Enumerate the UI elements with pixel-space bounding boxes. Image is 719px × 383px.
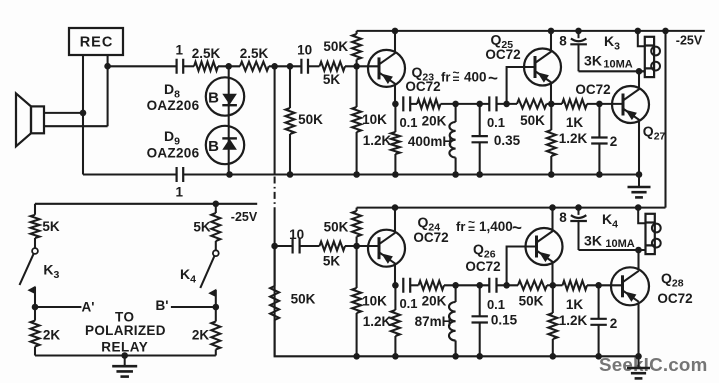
svg-text:OC72: OC72 (657, 291, 692, 306)
node 1.2K Q24 bottom (392, 353, 399, 360)
node B-prime junction (213, 304, 220, 311)
label fr approx 400 (441, 66, 498, 88)
wire 20K to nodes (441, 103, 490, 105)
capacitor 10 bottom coupling (293, 239, 300, 254)
svg-text:0.1: 0.1 (399, 296, 417, 311)
svg-text:B: B (208, 138, 219, 155)
node cap2 bottom rail (595, 353, 602, 360)
svg-text:2.5K: 2.5K (192, 46, 221, 61)
node 0.35 bottom (476, 171, 483, 178)
resistor 5K series top (320, 62, 346, 71)
contact K3 blade (20, 254, 34, 285)
resistor 1.2K Q24 emitter (391, 310, 400, 336)
wire -25V rail bottom channel (357, 207, 666, 209)
resistor 1.2K Q26 emitter (548, 313, 557, 339)
relay K3 coil (638, 31, 660, 77)
wire Q23 collector (394, 31, 396, 53)
wire input line to coupling cap (108, 65, 177, 67)
svg-text:RELAY: RELAY (101, 340, 148, 355)
inductor 400mH (449, 122, 455, 158)
node 0.15 top (476, 282, 483, 289)
capacitor 10 second coupling (301, 59, 308, 74)
wire Q25 emitter (550, 84, 552, 104)
wire Q24 collector (394, 208, 396, 233)
svg-text:400mH: 400mH (408, 134, 452, 149)
wire contact section rail (35, 203, 257, 205)
svg-text:1K: 1K (566, 115, 584, 130)
contact K4 wiper arrow (208, 289, 216, 297)
wire Q23 emitter (394, 85, 396, 104)
wire Q28 emitter to ground rail (637, 304, 639, 357)
svg-text:OC72: OC72 (485, 47, 520, 62)
svg-text:10MA: 10MA (605, 238, 634, 250)
wire Q26 collector (551, 208, 553, 231)
wire Q27 collector (638, 71, 640, 88)
svg-text:1.2K: 1.2K (559, 131, 588, 146)
svg-text:50K: 50K (519, 294, 544, 309)
node cap2 tap bottom (595, 282, 602, 289)
node relay K3 top on rail (635, 28, 642, 35)
node Q26 emitter node (550, 282, 557, 289)
svg-text:-25V: -25V (231, 210, 258, 224)
svg-text:OC72: OC72 (413, 230, 448, 245)
wire 5K K4 leads (215, 204, 217, 251)
capacitor 2 top channel (591, 138, 607, 144)
transistor Q25 OC72 (524, 49, 561, 86)
wire B-prime (171, 306, 216, 308)
svg-text:0.1: 0.1 (487, 115, 505, 130)
svg-text:5K: 5K (193, 220, 211, 235)
resistor 10K Q24 base-to-ground (352, 288, 361, 313)
wire K3 wiper stem (34, 287, 36, 307)
capacitor 0.1 second bottom (489, 278, 496, 293)
svg-text:POLARIZED: POLARIZED (85, 323, 166, 338)
wire shunt plain vertical (274, 66, 276, 174)
wire 5K K3 leads (34, 204, 36, 248)
wire Q28 collector (637, 250, 639, 270)
node inductor top (452, 101, 459, 108)
svg-text:2: 2 (610, 134, 618, 149)
node 0.15 bottom (476, 353, 483, 360)
contact K4 fixed circle (213, 250, 219, 256)
resistor 10K Q23 base-to-ground (352, 107, 361, 132)
svg-text:0.1: 0.1 (399, 115, 417, 130)
wire 0.15 leads (479, 285, 481, 356)
resistor 50K Q23 base-to-rail (352, 34, 361, 60)
svg-text:400: 400 (464, 70, 487, 85)
resistor 1K bottom (563, 281, 588, 290)
wire Q26 emitter (551, 263, 553, 285)
svg-text:A': A' (82, 300, 95, 315)
node 10K bottom (353, 171, 360, 178)
node Q25 emitter node (548, 101, 555, 108)
wire cap8 to relay node (579, 70, 645, 72)
wire 5K to Q23 base (345, 65, 379, 67)
wire 1.2K Q26 leads (552, 285, 554, 356)
capacitor 0.35 shunt (472, 136, 488, 142)
wire link solid to bottom input (274, 210, 276, 246)
contact K4 blade (200, 256, 214, 288)
wire Q25 base route (507, 67, 535, 104)
wire top channel lower rail left (83, 173, 177, 175)
wire -25V rail top (357, 30, 705, 32)
svg-text:5K: 5K (42, 219, 60, 234)
svg-text:87mH: 87mH (415, 314, 452, 329)
svg-text:50K: 50K (324, 220, 349, 235)
node Q28 emitter on rail (635, 353, 642, 360)
resistor 20K bottom (419, 281, 445, 290)
wire 1K to Q27 base (587, 103, 623, 105)
wire 10K leads (356, 66, 358, 174)
svg-text:8: 8 (559, 210, 567, 225)
wire 1.2K Q25 leads (550, 104, 552, 175)
svg-text:20K: 20K (422, 114, 447, 129)
wire to input shunt node (269, 65, 302, 67)
node junction on REC right lead (104, 63, 111, 70)
svg-text:B: B (208, 90, 219, 107)
node shunt wire top (271, 63, 278, 70)
svg-text:B': B' (156, 298, 169, 313)
svg-text:-25V: -25V (676, 34, 703, 48)
svg-text:REC: REC (80, 35, 114, 51)
svg-text:20K: 20K (422, 294, 447, 309)
svg-text:OC72: OC72 (405, 79, 440, 94)
wire A-prime (35, 306, 81, 308)
svg-text:50K: 50K (323, 39, 348, 54)
resistor 2.5K second (240, 62, 269, 71)
wire cap to 5K bottom (300, 245, 320, 247)
wire cap8 to relay K4 node (579, 249, 646, 251)
capacitor 0.1 second top (489, 96, 496, 111)
node 10K bottom rail (353, 353, 360, 360)
capacitor 1 input coupling (177, 59, 184, 74)
wire contact section bottom rail (35, 354, 216, 356)
wire Q27 emitter to ground rail (638, 121, 640, 175)
svg-text:1K: 1K (566, 297, 584, 312)
transistor Q27 OC72 (612, 86, 649, 123)
resistor 1.2K Q25 emitter (547, 130, 556, 156)
inductor 87mH (449, 302, 456, 341)
node Q24 collector on rail (392, 204, 399, 211)
node inductor bottom (452, 171, 459, 178)
svg-text:8: 8 (559, 34, 567, 49)
wire 50K shunt bottom leads (274, 246, 276, 356)
capacitor 8 electrolytic bottom (570, 208, 587, 250)
wire cap to 20K bottom (410, 284, 418, 286)
svg-text:~: ~ (468, 215, 475, 229)
resistor 50K shunt bottom channel (270, 286, 279, 320)
contact K3 fixed circle (32, 248, 38, 254)
resistor 2.5K first (194, 62, 218, 71)
capacitor 8 electrolytic top (570, 31, 587, 71)
node 1.2K Q26 bottom (550, 353, 557, 360)
svg-text:3K: 3K (584, 53, 602, 69)
resistor 50K bottom filter (518, 281, 547, 290)
wire 50K shunt leads (289, 66, 291, 174)
wire right edge feed down to K4 rail (664, 31, 666, 208)
wire K4 wiper stem (215, 290, 217, 307)
svg-text:OC72: OC72 (465, 259, 500, 274)
resistor 50K shunt top channel (286, 108, 295, 134)
svg-text:3K: 3K (584, 233, 602, 249)
wire inductor leads (455, 104, 457, 175)
node 1.2K Q25 bottom (548, 171, 555, 178)
svg-text:1: 1 (176, 43, 184, 58)
node Q24 base node (353, 243, 360, 250)
relay K4 coil (638, 208, 660, 255)
resistor 20K top (417, 99, 441, 108)
wire cap2 bottom leads (598, 285, 600, 356)
node Q27 emitter on rail (636, 171, 643, 178)
svg-text:10K: 10K (362, 294, 387, 309)
wire speaker lower terminal (44, 125, 108, 127)
svg-text:1.2K: 1.2K (559, 313, 588, 328)
node 0.35 top (476, 101, 483, 108)
svg-text:2K: 2K (43, 328, 61, 343)
svg-text:50K: 50K (298, 112, 323, 127)
capacitor 2 bottom channel (590, 319, 606, 325)
wire 0.35 leads (479, 104, 481, 175)
resistor 1K top (562, 99, 587, 108)
diode D8 OAZ206 zener circle (206, 77, 244, 115)
wire cap to 5K (308, 65, 320, 67)
resistor 50K top filter (517, 99, 547, 108)
svg-text:fr: fr (456, 219, 465, 234)
svg-text:0.1: 0.1 (487, 297, 505, 312)
svg-text:10K: 10K (362, 112, 387, 127)
ground Q28 emitter (627, 356, 650, 378)
svg-text:fr: fr (441, 70, 450, 85)
node cap8 top on rail (575, 28, 582, 35)
svg-text:1,400: 1,400 (479, 219, 513, 234)
node Q25 collector on rail (548, 28, 555, 35)
node cap8 bottom on rail (575, 204, 582, 211)
wire between 2.5K resistors (218, 65, 240, 67)
speaker (16, 93, 44, 146)
wire top channel lower rail right (183, 173, 639, 175)
wire cap to 50K bottom (497, 284, 519, 286)
node Q28 collector relay node (635, 247, 642, 254)
svg-text:50K: 50K (520, 113, 545, 128)
wire 87mH leads (455, 285, 457, 356)
node cap2 tap top (596, 101, 603, 108)
resistor 1.2K Q23 emitter (391, 132, 400, 154)
svg-text:0.15: 0.15 (491, 313, 518, 328)
node contact ground junction (121, 352, 128, 359)
wire speaker upper terminal (44, 112, 83, 114)
wire 2K K3 leads (34, 307, 36, 356)
wire 50K to 1K bottom (547, 284, 563, 286)
svg-text:OAZ206: OAZ206 (147, 146, 200, 161)
svg-text:10MA: 10MA (603, 59, 632, 71)
transistor Q24 OC72 (368, 230, 405, 267)
svg-text:OC72: OC72 (575, 82, 610, 97)
node Q23 collector on rail (392, 28, 399, 35)
wire 5K to Q24 base (345, 245, 379, 247)
svg-text:1.2K: 1.2K (363, 133, 392, 148)
svg-text:1.2K: 1.2K (363, 314, 392, 329)
capacitor 1 lower coupling (177, 167, 184, 182)
node Q27 collector relay node (636, 68, 643, 75)
resistor 2K K4 branch (211, 322, 220, 350)
wire 50K to 1K (547, 103, 563, 105)
resistor 5K K3 branch (31, 215, 40, 238)
contact K3 wiper arrow (27, 286, 35, 294)
svg-text:50K: 50K (291, 292, 316, 307)
svg-text:1: 1 (176, 185, 184, 200)
node relay K4 top on rail (635, 204, 642, 211)
node D9 on lower rail (226, 171, 233, 178)
transistor Q23 OC72 (368, 50, 405, 87)
wire cap to 50K (497, 103, 518, 105)
node right feed junction (662, 28, 669, 35)
svg-text:2K: 2K (192, 328, 210, 343)
capacitor 0.1 first bottom (403, 278, 410, 293)
wire 50K base leads (356, 31, 358, 66)
wire bottom channel lower rail (275, 246, 639, 356)
node inductor top bottom (452, 282, 459, 289)
diode D8 symbol (222, 94, 237, 105)
node bottom input junction (271, 243, 278, 250)
node Q24 emitter node (392, 282, 399, 289)
svg-text:OAZ206: OAZ206 (147, 98, 200, 113)
node 1.2K Q23 bottom (392, 171, 399, 178)
resistor 2K K3 branch (31, 321, 40, 347)
wire diode branch vertical (228, 66, 230, 174)
node Q26 base tap (503, 282, 510, 289)
resistor 50K Q24 base-to-rail (352, 211, 361, 237)
wire Q24 emitter (394, 264, 396, 285)
diode D9 symbol (222, 138, 237, 149)
svg-text:~: ~ (453, 66, 460, 80)
node 87mH bottom (452, 353, 459, 360)
node 50K shunt bottom (287, 171, 294, 178)
ground contact section (112, 356, 137, 377)
svg-text:0.35: 0.35 (494, 133, 521, 148)
wire bottom input line (275, 245, 293, 247)
node cap2 bottom (596, 171, 603, 178)
wire 20K to nodes bottom (444, 284, 489, 286)
svg-text:~: ~ (488, 69, 498, 88)
node Q25 base tap (503, 101, 510, 108)
node diode limiter tap (225, 63, 232, 70)
wire REC left lead down to lower rail (82, 55, 84, 175)
transistor Q26 OC72 (526, 228, 563, 265)
wire 1.2K Q23 leads (394, 104, 396, 175)
svg-text:2.5K: 2.5K (240, 46, 269, 61)
svg-text:~: ~ (512, 218, 522, 237)
wire 1.2K Q24 leads (394, 285, 396, 356)
ground Q27 emitter (628, 175, 651, 198)
svg-text:10: 10 (297, 43, 312, 58)
node 50K shunt top (287, 63, 294, 70)
wire Q25 collector (550, 31, 552, 51)
svg-text:2: 2 (610, 316, 618, 331)
wire REC right lead down to speaker lower wire (107, 55, 109, 126)
wire cap2 top leads (598, 104, 600, 175)
wire 10K bottom leads (356, 246, 358, 356)
node Q23 base node (353, 63, 360, 70)
node K4 branch on rail (213, 201, 220, 208)
svg-text:10: 10 (289, 227, 304, 242)
wire 1K to Q28 base (587, 284, 623, 286)
svg-text:5K: 5K (323, 72, 341, 87)
wire Q26 base route (507, 247, 537, 286)
wire 50K Q24 leads (356, 208, 358, 246)
resistor 5K K4 branch (211, 213, 220, 241)
wire cap to resistor (183, 65, 194, 67)
node Q23 emitter node (392, 101, 399, 108)
wire cap to 20K (410, 103, 417, 105)
node Q26 collector on rail (549, 204, 556, 211)
diode D9 OAZ206 zener circle (206, 126, 244, 164)
svg-text:5K: 5K (323, 254, 341, 269)
REC recorder box (69, 28, 123, 55)
transistor Q28 OC72 (611, 267, 649, 305)
node A-prime junction (32, 304, 39, 311)
node speaker upper junction (80, 110, 87, 117)
wire 2K K4 leads (215, 307, 217, 356)
capacitor 0.15 shunt (472, 316, 488, 322)
resistor 5K series bottom (320, 242, 346, 251)
label fr approx 1400 (456, 215, 522, 237)
capacitor 0.1 first top (403, 96, 410, 111)
wire dash-dot channel link (274, 177, 276, 211)
